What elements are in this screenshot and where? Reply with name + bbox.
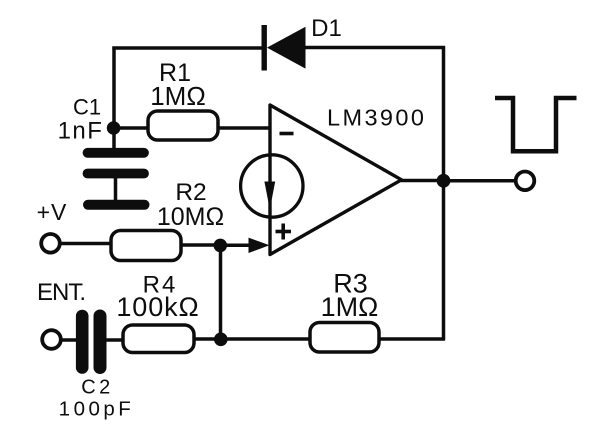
wire: C2 to R4 — [106, 338, 124, 342]
wire: R2 to node A — [180, 243, 221, 247]
svg-text:10MΩ: 10MΩ — [157, 203, 224, 231]
wire: node A down to node B — [219, 245, 223, 339]
resistor R2 — [111, 231, 181, 261]
capacitor C2 — [82, 316, 100, 368]
resistor R1 — [148, 111, 218, 140]
wire: +V terminal to R2 — [60, 242, 112, 246]
wire: op-amp output to node — [401, 179, 444, 183]
wire: output node to terminal — [444, 179, 516, 183]
op-amp plus sign — [276, 224, 292, 240]
arrowhead into plus input — [249, 238, 270, 253]
op-amp minus sign — [280, 132, 294, 136]
capacitor C1 — [88, 128, 145, 174]
wire: node A to plus input arrow — [220, 243, 252, 247]
svg-text:LM3900: LM3900 — [327, 105, 426, 131]
node: output junction — [437, 174, 451, 188]
svg-text:1nF: 1nF — [58, 118, 104, 145]
wire: top rail right segment from diode anode — [305, 46, 445, 50]
wire: C1 lower plate to ground bar — [114, 176, 118, 202]
wire: right rail upper (top rail down to output node) — [442, 46, 446, 181]
resistor R3 — [310, 323, 379, 353]
svg-text:100pF: 100pF — [59, 398, 135, 421]
node B (feedback net) — [214, 333, 228, 347]
svg-text:R2: R2 — [175, 179, 206, 206]
wire: node B to R3 — [221, 337, 311, 341]
terminal: ENT input — [42, 330, 61, 349]
svg-text:1MΩ: 1MΩ — [150, 81, 206, 111]
wire: R4 to node B — [193, 337, 221, 341]
wire: top rail left segment to diode cathode — [112, 46, 263, 50]
wire: node to R1 left lead — [113, 126, 149, 130]
svg-text:D1: D1 — [311, 15, 342, 42]
node: C1 junction — [107, 121, 121, 135]
svg-text:ENT.: ENT. — [37, 279, 85, 306]
resistor R4 — [123, 325, 194, 353]
wire: right rail lower (output node down to R3) — [442, 181, 446, 340]
svg-text:100kΩ: 100kΩ — [116, 292, 199, 322]
wire: R3 to right rail — [378, 337, 445, 341]
ground — [88, 200, 145, 210]
svg-text:C2: C2 — [81, 377, 114, 399]
waveform symbol (negative pulse) — [495, 98, 577, 151]
svg-text:1MΩ: 1MΩ — [321, 292, 379, 322]
current source arrow — [264, 182, 275, 210]
terminal: +V input — [41, 234, 60, 253]
svg-text:+V: +V — [37, 199, 68, 225]
wire: R1 to op-amp inverting input — [217, 126, 270, 130]
terminal: output — [516, 172, 535, 191]
svg-text:C1: C1 — [73, 95, 101, 120]
wire: ENT terminal to C2 — [61, 338, 78, 342]
current source (inside op-amp) — [241, 155, 303, 217]
wire: C1 node up to top rail — [112, 47, 116, 129]
diode D1 — [262, 25, 306, 71]
node A (noninverting net) — [214, 239, 228, 253]
op-amp U1 triangle — [270, 105, 402, 255]
